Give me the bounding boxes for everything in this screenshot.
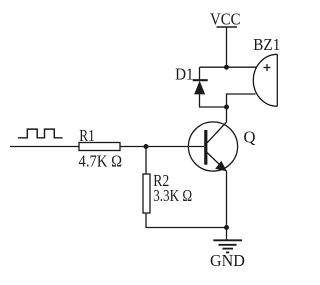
svg-text:BZ1: BZ1 [253, 35, 280, 54]
svg-text:3.3K Ω: 3.3K Ω [153, 186, 192, 205]
svg-text:R1: R1 [79, 126, 95, 145]
svg-text:GND: GND [210, 251, 245, 270]
svg-text:D1: D1 [175, 64, 194, 83]
svg-text:4.7K Ω: 4.7K Ω [79, 152, 123, 171]
svg-text:Q: Q [244, 128, 256, 147]
svg-text:VCC: VCC [210, 9, 241, 28]
